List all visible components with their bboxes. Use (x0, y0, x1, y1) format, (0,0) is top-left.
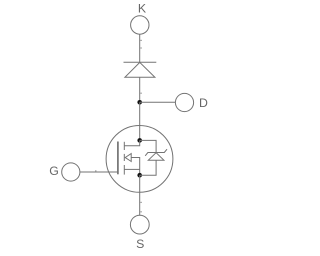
body diode anode triangle (148, 153, 164, 161)
svg-text:S: S (136, 237, 144, 251)
drain junction dot (137, 138, 142, 143)
bulk arrow (125, 154, 131, 162)
diode D1 cathode bar (124, 61, 157, 63)
bulk stub wire (131, 158, 140, 176)
terminal D circle (175, 93, 193, 111)
pin end tick marks (95, 40, 142, 213)
MOSFET Q1 body circle (106, 125, 173, 192)
body diode branch wire top (140, 140, 156, 152)
svg-text:K: K (138, 1, 147, 15)
terminal K circle (131, 16, 149, 34)
junction node dot (137, 100, 142, 105)
diode D1 anode triangle (125, 62, 155, 77)
terminal S circle (130, 215, 149, 234)
channel segment top (123, 142, 125, 150)
gate bar (117, 142, 119, 175)
drain stub wire (124, 140, 139, 145)
wire source to terminal S (139, 175, 141, 215)
wire diode anode to node (139, 77, 141, 102)
source stub wire (124, 168, 139, 170)
channel segment middle (123, 154, 125, 161)
terminal G circle (62, 163, 80, 181)
channel segment bottom (123, 165, 125, 175)
wire node to MOSFET drain (139, 102, 141, 140)
wire K to diode cathode (139, 34, 141, 62)
body diode branch wire bottom (140, 160, 156, 175)
svg-text:D: D (199, 96, 208, 110)
wire G to gate (80, 171, 118, 173)
wire node to terminal D (140, 101, 176, 103)
svg-text:G: G (49, 164, 59, 178)
source junction dot (137, 173, 142, 178)
body diode zener cathode bar (145, 149, 167, 156)
